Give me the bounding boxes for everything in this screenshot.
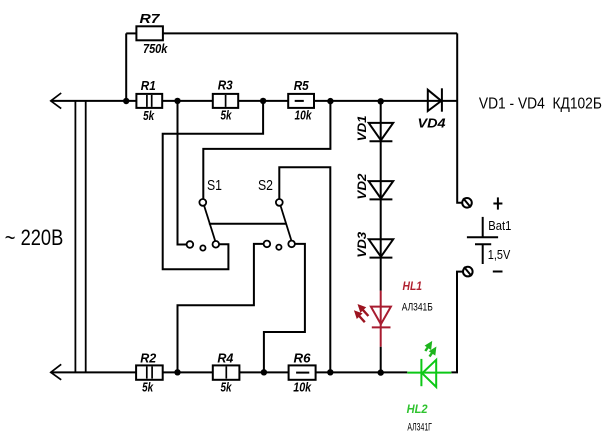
wire right vertical to battery plus [457,33,462,202]
node junction R3-R5 [260,98,266,104]
svg-text:5k: 5k [221,109,233,123]
svg-text:R1: R1 [141,78,156,93]
svg-text:VD4: VD4 [418,115,447,130]
resistor R4 [213,365,240,379]
svg-text:750k: 750k [143,42,168,56]
svg-text:5k: 5k [142,380,154,394]
svg-text:HL2: HL2 [407,404,429,416]
svg-text:10k: 10k [295,109,313,123]
node junction R4-R6 [261,369,267,375]
node junction VD chain bottom [378,369,384,375]
svg-text:VD2: VD2 [357,173,369,200]
wire S1 right contact return to R3 node [163,101,263,269]
svg-text:R2: R2 [140,350,157,365]
arrow bottom-left mains [51,364,61,380]
HL1 emission arrows [355,305,369,322]
svg-text:~ 220В: ~ 220В [5,225,64,250]
wire VD chain vertical black upper [380,101,382,290]
resistor R3 [213,94,238,108]
resistor R6 [289,365,316,379]
resistor R1 [136,94,162,108]
wire top rail [51,100,458,102]
wire tie between S1 and S2 levers [209,223,286,225]
node junction R7/rail [123,98,129,104]
svg-text:5k: 5k [143,109,155,123]
wire S2 top contact to R6 right node [279,167,330,372]
svg-text:R5: R5 [294,78,310,93]
node junction R5 right [327,98,333,104]
svg-text:5k: 5k [221,380,233,394]
wire bottom rail [51,371,408,373]
label plus sign [493,203,502,205]
arrow top-left mains [51,93,61,109]
wire R7 left lead [126,32,136,34]
wire R7 right lead to right vertical [163,32,457,34]
terminal battery plus clip [462,198,472,208]
diode VD2 [369,181,394,198]
node junction R2-R4 [174,369,180,375]
wire R7 branch vertical [125,33,127,101]
switch S1 [204,206,215,241]
label minus sign [493,271,503,273]
wire mains double line 1 [74,101,76,373]
terminal battery minus clip [463,267,473,277]
wire VD chain vertical black lower [380,347,382,373]
wire S2 right contact to R4-R6 node [264,244,305,372]
svg-text:1,5V: 1,5V [488,248,511,262]
svg-text:Bat1: Bat1 [488,219,511,233]
svg-text:АЛ341Б: АЛ341Б [402,302,433,314]
node junction R6 right [327,369,333,375]
diode VD4 [428,90,442,111]
LED HL1 red [371,307,391,325]
resistor R5 [288,94,314,108]
svg-text:VD1: VD1 [357,115,369,141]
svg-text:АЛ341Г: АЛ341Г [407,421,432,433]
LED HL2 green [422,360,436,387]
svg-text:S1: S1 [207,177,222,194]
svg-text:HL1: HL1 [403,281,423,293]
diode VD1 [369,123,394,140]
svg-text:VD1 - VD4 КД102Б: VD1 - VD4 КД102Б [479,96,602,113]
wire battery minus down to bottom rail [451,272,463,373]
switch S2 [281,206,292,241]
node junction VD chain top [378,98,384,104]
svg-text:R3: R3 [218,78,234,93]
svg-text:R6: R6 [294,350,312,365]
battery Bat1 [482,217,484,237]
wire S1 left contact to top rail [178,101,187,245]
diode VD3 [369,239,394,256]
svg-text:S2: S2 [258,177,273,194]
resistor R7 [136,26,163,40]
wire S2 left contact to R2-R4 node [178,244,264,372]
wire S1 top feed from R5 node [203,101,330,199]
svg-text:R4: R4 [217,350,234,365]
node junction R1-R3 [174,98,180,104]
svg-text:10k: 10k [293,380,312,394]
HL2 emission arrows [425,342,436,357]
svg-text:VD3: VD3 [357,231,369,258]
svg-text:R7: R7 [140,11,161,26]
wire mains double line 2 [85,101,87,373]
wire HL1 red leads [380,291,382,347]
resistor R2 [136,365,163,379]
wire HL2 green lead [407,372,451,374]
